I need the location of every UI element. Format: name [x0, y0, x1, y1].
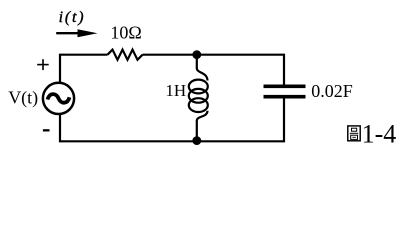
- svg-text:1-4: 1-4: [362, 119, 397, 148]
- wire: resistor to capacitor top: [143, 55, 285, 85]
- svg-text:1H: 1H: [165, 81, 186, 100]
- svg-text:0.02F: 0.02F: [311, 81, 353, 101]
- svg-text:i(t): i(t): [59, 9, 86, 26]
- figure label: character tu (drawn): [348, 126, 360, 141]
- plus sign: [37, 59, 49, 70]
- svg-text:V(t): V(t): [8, 88, 38, 109]
- wire: capacitor bottom to source bottom: [60, 98, 284, 141]
- current arrow: [56, 29, 97, 37]
- wire: source top to resistor: [60, 55, 108, 82]
- junction dot bottom: [192, 136, 201, 145]
- wire: inductor top lead: [196, 55, 198, 69]
- AC source V(t): [43, 83, 74, 114]
- minus sign: [43, 129, 50, 131]
- svg-text:10Ω: 10Ω: [110, 23, 141, 43]
- inductor L 1H: [189, 68, 208, 121]
- junction dot top: [192, 50, 201, 59]
- resistor R 10ohm: [108, 50, 143, 60]
- capacitor C 0.02F: [264, 85, 306, 99]
- wire: inductor bottom lead: [196, 121, 198, 142]
